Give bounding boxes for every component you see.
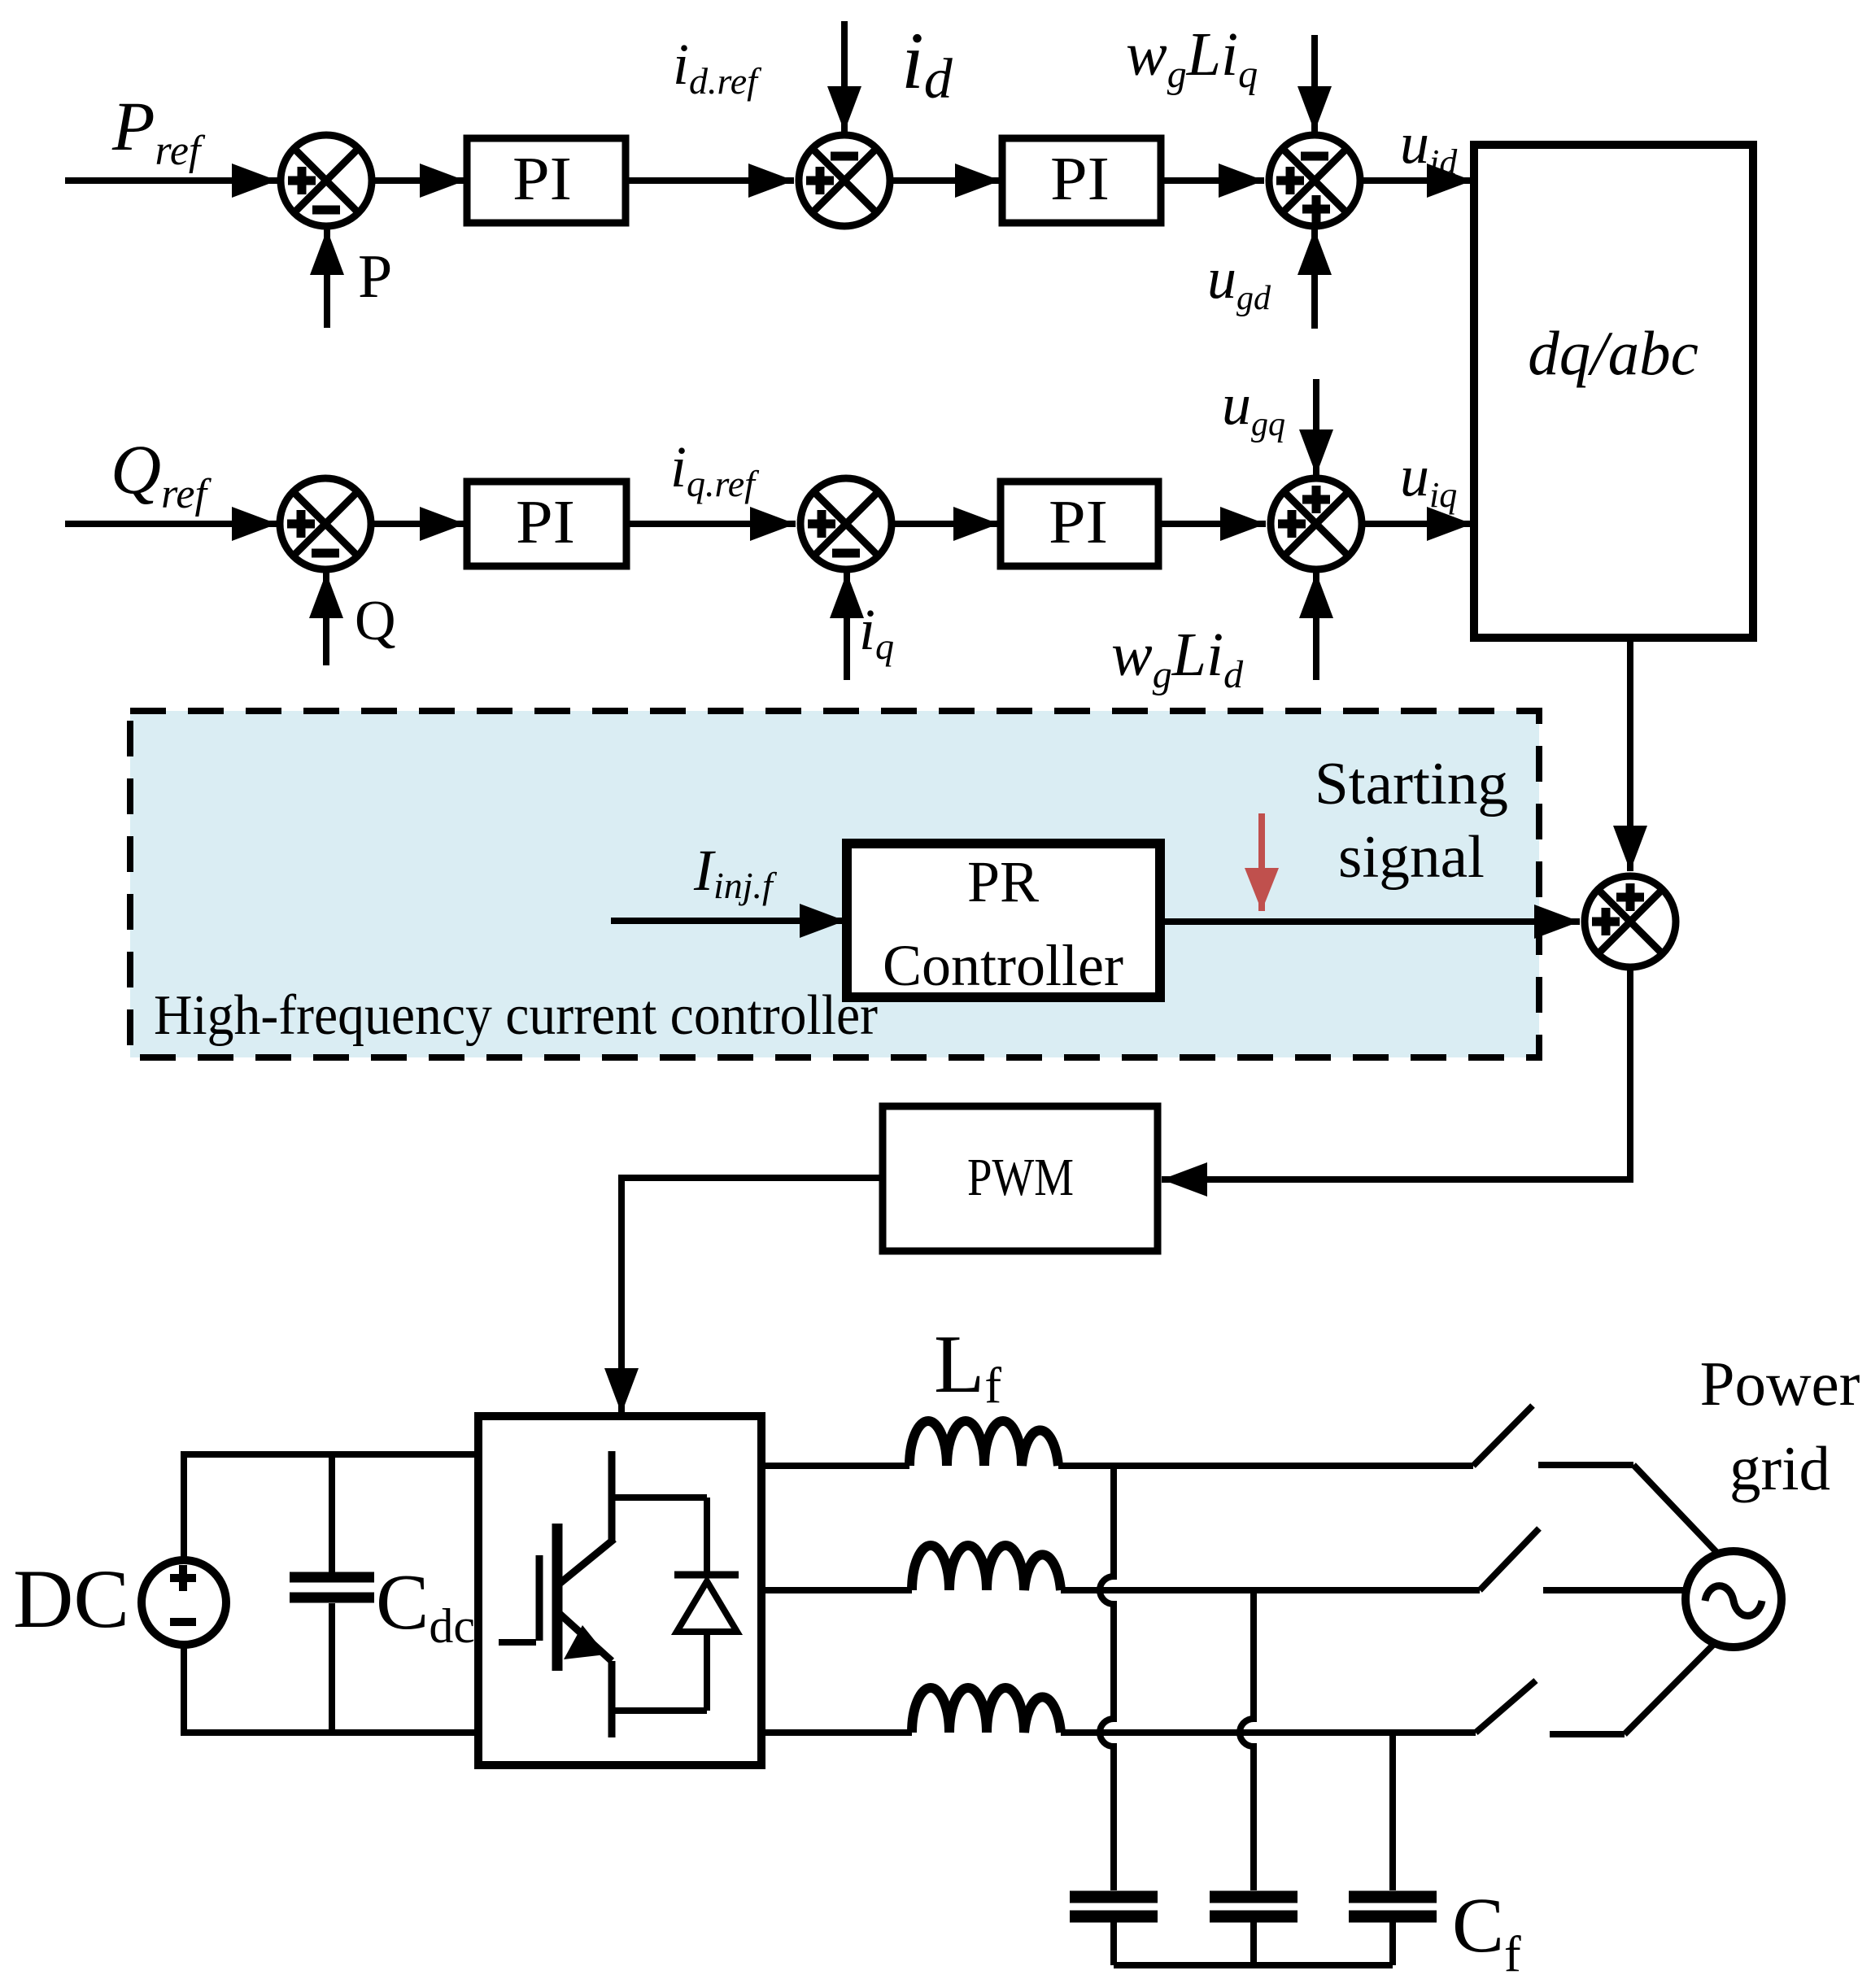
wire wgLid input from bottom xyxy=(1313,573,1319,680)
wire Cf tap 3 xyxy=(1389,1733,1396,1890)
wire wgLiq input from top xyxy=(1311,35,1318,132)
svg-text:Starting: Starting xyxy=(1315,751,1508,817)
block dq/abc xyxy=(1474,145,1753,638)
svg-text:dq/abc: dq/abc xyxy=(1528,318,1699,388)
wire ugd input from bottom xyxy=(1311,229,1318,329)
transistor IGBT xyxy=(499,1451,707,1737)
wire phase A xyxy=(761,1463,909,1469)
inductor Lf phase B xyxy=(912,1545,1061,1590)
wire Cf1 to bus xyxy=(1110,1922,1117,1965)
svg-text:PI: PI xyxy=(512,145,572,213)
starting signal red arrow xyxy=(1258,813,1265,911)
wire PWM left and down into inverter xyxy=(621,1178,883,1414)
wire Qref input xyxy=(65,521,277,527)
svg-text:Controller: Controller xyxy=(883,933,1123,998)
summing junction J4 xyxy=(280,478,371,569)
wire dqabc down to J7 xyxy=(1627,638,1633,871)
source DC xyxy=(142,1560,226,1645)
wire phase B xyxy=(761,1587,912,1593)
wire phase A to switch xyxy=(1058,1463,1473,1469)
capacitor Cf3 xyxy=(1349,1897,1437,1916)
wire PI4 to J6 xyxy=(1158,521,1266,527)
block PWM xyxy=(883,1106,1158,1251)
svg-text:wgLiq: wgLiq xyxy=(1126,20,1258,96)
block PI3 xyxy=(467,482,626,566)
block PI4 xyxy=(1001,482,1158,566)
summing junction J3 xyxy=(1269,135,1360,226)
wire phase C xyxy=(761,1729,912,1736)
wire DC+ rail xyxy=(181,1451,482,1458)
wire J7 down and left into PWM xyxy=(1162,970,1630,1179)
wire Iinj.f to PR controller xyxy=(611,918,845,924)
wire DC- rail xyxy=(181,1729,482,1736)
wire Cf2 to bus xyxy=(1250,1922,1257,1965)
wire J4 to PI3 xyxy=(374,521,465,527)
svg-text:P: P xyxy=(358,242,392,311)
block PR Controller xyxy=(847,844,1160,997)
wire DC+ to top rail xyxy=(181,1454,187,1563)
summing junction J6 xyxy=(1271,478,1362,569)
wire J6 to dqabc, label uiq xyxy=(1365,521,1472,527)
wire J2 to PI2 xyxy=(893,177,1001,184)
capacitor Cdc xyxy=(329,1454,335,1572)
capacitor Cf2 xyxy=(1210,1897,1297,1916)
capacitor Cf1 xyxy=(1070,1897,1158,1916)
wire id input arrow from top xyxy=(841,21,848,132)
wire Cf3 to bus xyxy=(1389,1922,1396,1965)
wire PR controller to J7 xyxy=(1160,918,1580,925)
switch phase A xyxy=(1473,1406,1533,1466)
block PI2 xyxy=(1002,138,1161,223)
wire P feedback into J1 xyxy=(324,229,330,328)
svg-text:DC: DC xyxy=(13,1553,129,1646)
svg-text:signal: signal xyxy=(1338,824,1485,891)
svg-text:PWM: PWM xyxy=(967,1148,1074,1207)
wire J1 to PI1 xyxy=(375,177,465,184)
switch phase C xyxy=(1476,1681,1536,1733)
wire J5 to PI4 xyxy=(895,521,999,527)
wire Cf tap 1 with hops xyxy=(1100,1466,1114,1890)
wire phase B to switch xyxy=(1061,1587,1480,1593)
summing junction J7 xyxy=(1585,876,1676,967)
summing junction J2 xyxy=(799,135,890,226)
wire phase C to switch xyxy=(1061,1729,1476,1736)
inductor Lf phase A xyxy=(909,1421,1058,1466)
block PI1 xyxy=(467,138,626,223)
svg-text:PI: PI xyxy=(1050,145,1110,213)
wire DC- to bottom rail xyxy=(181,1641,187,1733)
svg-text:High-frequency current control: High-frequency current controller xyxy=(154,984,878,1047)
wire Pref input xyxy=(65,177,277,184)
switch phase B xyxy=(1480,1528,1539,1590)
inductor Lf phase C xyxy=(912,1688,1061,1733)
wire J3 to dqabc, label uid xyxy=(1363,177,1472,184)
source grid xyxy=(1686,1551,1782,1647)
wire ugq input from top xyxy=(1313,379,1319,475)
summing junction J5 xyxy=(800,478,892,569)
diode D1 xyxy=(612,1498,739,1711)
svg-text:PI: PI xyxy=(516,488,575,556)
block inverter box xyxy=(478,1416,761,1765)
wire PI1 to J2, label id.ref xyxy=(626,177,794,184)
wire Cf tap 2 with hop xyxy=(1240,1590,1254,1890)
High-frequency current controller dashed region xyxy=(130,711,1539,1057)
svg-text:PR: PR xyxy=(967,849,1039,914)
svg-text:grid: grid xyxy=(1729,1433,1830,1503)
wire Q feedback into J4 xyxy=(323,573,329,665)
svg-text:Power: Power xyxy=(1700,1349,1860,1419)
wire iq feedback into J5 xyxy=(844,573,850,680)
summing junction J1 xyxy=(281,135,372,226)
wire PI2 to J3 xyxy=(1161,177,1264,184)
wire Cf bottom bus xyxy=(1114,1962,1393,1968)
wire PI3 to J5, label iq.ref xyxy=(626,521,796,527)
svg-text:Q: Q xyxy=(355,590,396,652)
svg-text:PI: PI xyxy=(1049,488,1108,556)
